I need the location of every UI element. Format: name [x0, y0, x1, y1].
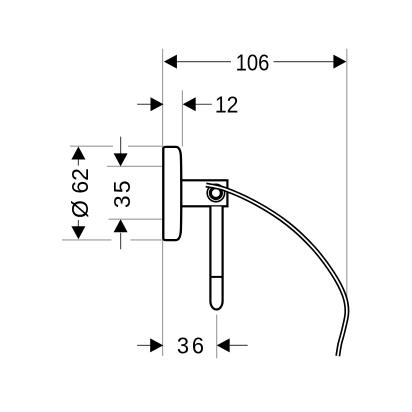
bracket arm	[180, 180, 227, 206]
dimension 36 arrow left	[150, 338, 163, 352]
dimension D62 arrow top	[71, 147, 85, 160]
extension line D62 bottom	[62, 239, 112, 241]
svg-text:36: 36	[177, 333, 207, 359]
extension line 35 bottom	[109, 218, 162, 220]
dimension 35 arrow bottom	[114, 219, 128, 232]
wall plate	[163, 147, 181, 240]
svg-text:35: 35	[109, 179, 135, 209]
extension line D62 top	[70, 145, 113, 147]
dimension 12 arrow right	[183, 97, 196, 111]
svg-text:106: 106	[236, 49, 270, 76]
dimension D62 arrow bottom	[71, 226, 85, 239]
extension line left (wall face)	[162, 49, 164, 356]
dimension 106 line	[176, 61, 231, 63]
extension line bar centre (36 dim)	[216, 315, 218, 359]
extension line right (wire outermost)	[346, 49, 348, 300]
dimension 106 arrow left	[164, 55, 177, 69]
pivot outer circle	[207, 184, 224, 201]
extension line plate front (12 dim)	[181, 90, 183, 146]
dimension 106 arrow right	[333, 55, 346, 69]
dimension 35 arrow top	[114, 153, 128, 166]
dimension 12 line	[137, 103, 151, 105]
roller bar joint tick	[210, 276, 222, 278]
spring wire outline	[206, 185, 347, 356]
svg-text:Ø 62: Ø 62	[67, 168, 93, 218]
dimension 36 line	[137, 344, 151, 346]
dimension 12 arrow left	[151, 97, 164, 111]
dimension 36 arrow right	[217, 338, 230, 352]
svg-text:12: 12	[215, 92, 239, 118]
extension line 35 top	[107, 165, 162, 167]
pivot ring	[210, 188, 221, 199]
roller bar	[210, 207, 222, 310]
dimension 35 line	[120, 137, 122, 154]
spring wire core	[206, 185, 347, 356]
dimension D62 line	[77, 159, 79, 166]
